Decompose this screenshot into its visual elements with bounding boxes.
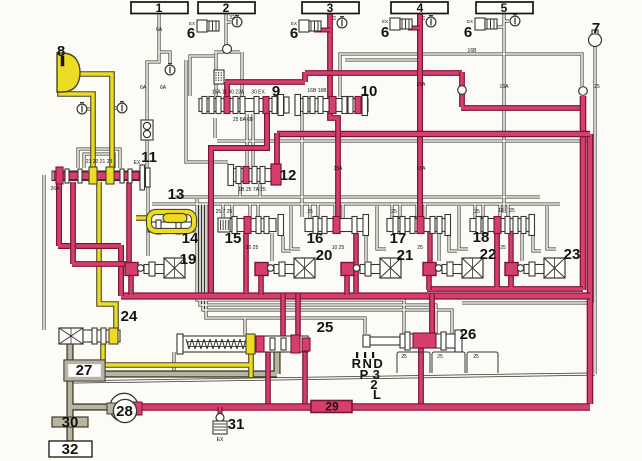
- valve 10 spool: [295, 99, 368, 112]
- svg-text:16A: 16A: [417, 166, 427, 172]
- orifice component: [141, 120, 153, 140]
- svg-text:1B 25 7A 25: 1B 25 7A 25: [238, 187, 265, 193]
- svg-text:8: 8: [57, 43, 65, 60]
- svg-text:6A: 6A: [140, 85, 147, 91]
- svg-text:10 25: 10 25: [246, 245, 259, 251]
- solenoid valve 6-2: [299, 20, 309, 32]
- valve 9 shift spool: [199, 99, 280, 112]
- torque converter feed 8: [57, 53, 80, 92]
- svg-text:15A: 15A: [334, 166, 344, 172]
- detent gates: [397, 352, 430, 373]
- sump box 32: [49, 441, 92, 457]
- svg-text:25: 25: [401, 354, 407, 360]
- svg-text:5: 5: [501, 1, 508, 15]
- solenoid valve 22: [423, 263, 436, 276]
- detent 13: [149, 212, 194, 231]
- solenoid valve 21: [341, 263, 354, 276]
- wire gray pipework: [147, 13, 159, 168]
- svg-text:10: 10: [361, 83, 378, 100]
- svg-text:22: 22: [480, 246, 497, 263]
- svg-text:19: 19: [180, 251, 197, 268]
- svg-text:23 20 21 23: 23 20 21 23: [86, 159, 113, 165]
- valve 17 spool: [387, 219, 448, 232]
- svg-text:25 8A 6B: 25 8A 6B: [233, 117, 254, 123]
- svg-text:25: 25: [509, 208, 515, 214]
- svg-text:13: 13: [168, 186, 185, 203]
- svg-text:EX: EX: [217, 437, 224, 443]
- valve 24 converter valve: [59, 328, 83, 344]
- svg-text:18: 18: [473, 229, 490, 246]
- clutch box 1: [131, 2, 188, 14]
- svg-text:25: 25: [473, 354, 479, 360]
- svg-text:23: 23: [564, 246, 581, 263]
- svg-text:EX: EX: [134, 160, 141, 166]
- svg-text:16B 16B: 16B 16B: [307, 88, 327, 94]
- svg-text:16A: 16A: [500, 84, 510, 90]
- test port plug 3: [337, 18, 347, 28]
- svg-text:26: 26: [460, 326, 477, 343]
- svg-text:25: 25: [417, 245, 423, 251]
- svg-text:17: 17: [390, 230, 407, 247]
- svg-text:10 25: 10 25: [332, 245, 345, 251]
- svg-text:25: 25: [307, 209, 313, 215]
- pressure tap 7: [589, 34, 602, 47]
- line pressure box 29: [311, 401, 352, 413]
- svg-text:25: 25: [594, 84, 600, 90]
- svg-text:25: 25: [474, 209, 480, 215]
- check ball B: [579, 87, 588, 96]
- test port plug 1: [165, 65, 175, 75]
- wire yellow converter lines: [72, 74, 112, 169]
- svg-text:15: 15: [225, 230, 242, 247]
- svg-text:25: 25: [437, 354, 443, 360]
- clutch box 3: [302, 2, 359, 14]
- svg-text:26A: 26A: [51, 186, 61, 192]
- svg-text:14: 14: [182, 230, 199, 247]
- svg-text:6: 6: [290, 25, 298, 42]
- filter 30: [52, 417, 88, 427]
- svg-text:4: 4: [417, 1, 424, 15]
- svg-text:11: 11: [141, 149, 157, 166]
- svg-text:6: 6: [187, 25, 195, 42]
- svg-text:30 EX: 30 EX: [251, 90, 265, 96]
- svg-text:21: 21: [397, 247, 414, 264]
- svg-text:25: 25: [391, 209, 397, 215]
- svg-text:2: 2: [223, 1, 230, 15]
- solenoid valve 20: [255, 263, 268, 276]
- solenoid valve 23: [505, 263, 518, 276]
- svg-text:16: 16: [307, 230, 324, 247]
- svg-text:27: 27: [76, 362, 93, 379]
- svg-text:16A 11 30 22A: 16A 11 30 22A: [212, 90, 245, 96]
- solenoid valve 6-3: [390, 18, 400, 30]
- test port plug 2: [232, 17, 242, 27]
- relief valve 31: [216, 414, 224, 422]
- clutch box 4: [391, 2, 448, 14]
- solenoid valve 6-1: [197, 20, 207, 32]
- svg-text:25 7 25: 25 7 25: [216, 209, 233, 215]
- svg-text:1: 1: [156, 1, 163, 15]
- svg-text:12: 12: [280, 167, 297, 184]
- selector ticks: [356, 352, 358, 358]
- test port plug 4: [426, 17, 436, 27]
- regulator dome: [223, 45, 232, 54]
- clutch box 2: [198, 2, 255, 14]
- valve 18 spool: [470, 219, 531, 232]
- svg-text:28: 28: [116, 403, 133, 420]
- svg-text:20: 20: [316, 247, 333, 264]
- svg-text:25: 25: [317, 319, 334, 336]
- valve 14 spool: [148, 222, 194, 232]
- valve 12 spool: [228, 169, 272, 182]
- clutch box 5: [476, 2, 533, 14]
- svg-text:16A: 16A: [417, 82, 427, 88]
- svg-text:31: 31: [228, 416, 245, 433]
- valve 11 manual valve: [52, 171, 143, 181]
- svg-text:30: 30: [62, 414, 79, 431]
- strainer box 27: [64, 360, 105, 381]
- valve 16 spool: [305, 219, 366, 232]
- valve 25 pressure regulator: [177, 334, 183, 354]
- svg-text:7: 7: [592, 20, 600, 37]
- test port plug 7: [117, 103, 127, 113]
- screen block: [214, 70, 224, 84]
- wire olive suction lines: [66, 344, 73, 442]
- svg-text:29: 29: [325, 400, 339, 414]
- svg-text:6: 6: [381, 24, 389, 41]
- pump 28: [110, 393, 138, 421]
- svg-text:6: 6: [464, 24, 472, 41]
- svg-text:3: 3: [327, 1, 334, 15]
- solenoid valve 19: [125, 263, 138, 276]
- svg-text:24: 24: [121, 308, 138, 325]
- svg-text:32: 32: [229, 15, 235, 21]
- test port plug 6: [77, 104, 87, 114]
- valve 26 governor valve: [369, 337, 400, 345]
- svg-text:L: L: [373, 387, 381, 402]
- test port plug 5: [510, 16, 520, 26]
- svg-text:32: 32: [62, 441, 79, 458]
- svg-text:16: 16: [498, 208, 504, 214]
- svg-text:9: 9: [272, 83, 280, 100]
- svg-text:25: 25: [500, 245, 506, 251]
- check ball A: [458, 86, 467, 95]
- wire pink main pressure lines: [327, 13, 333, 84]
- svg-text:6A: 6A: [160, 85, 167, 91]
- svg-text:6A: 6A: [156, 27, 163, 33]
- solenoid valve 6-4: [475, 18, 485, 30]
- svg-text:16B: 16B: [468, 48, 478, 54]
- valve 15 spool: [224, 219, 276, 232]
